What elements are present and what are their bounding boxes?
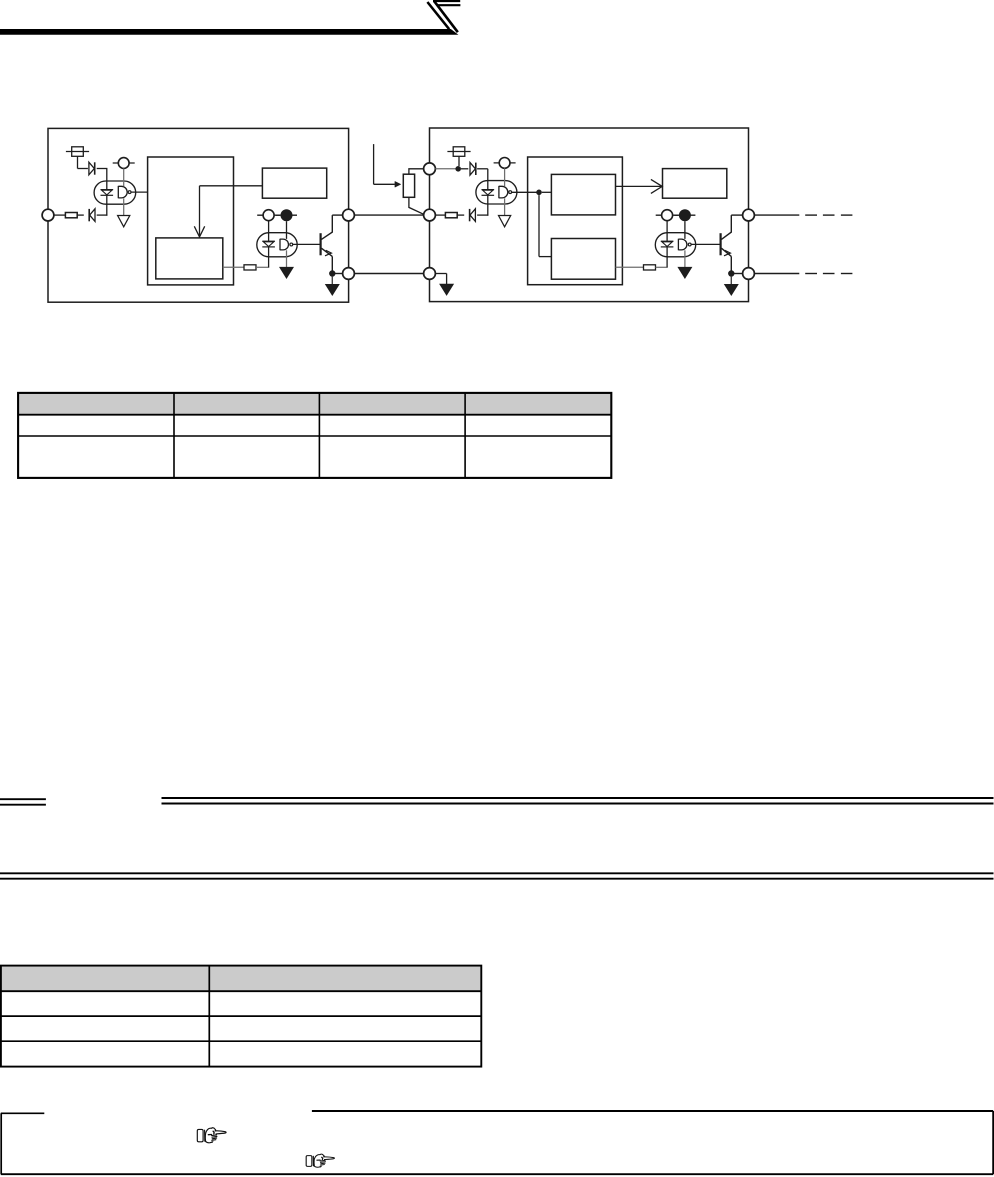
chapter rule full width <box>0 873 994 878</box>
resistor R1 input left <box>65 213 77 218</box>
arrow logic to function rect <box>616 179 663 193</box>
wire fuse to junction <box>458 156 460 166</box>
filled rail circle right output <box>674 209 695 221</box>
PC1 LED <box>101 190 114 196</box>
wire D3 to LED anode <box>477 169 488 190</box>
ground PC4 right <box>678 267 691 278</box>
table 1 specifications <box>18 393 611 478</box>
wire junction to ground Q2 <box>730 276 732 284</box>
wire Q1 emitter to junction <box>331 256 333 273</box>
series resistor R3 vertical <box>403 174 414 197</box>
wire terminal to ground right <box>435 274 446 285</box>
function rect left-top <box>262 168 326 198</box>
wire link lower <box>354 273 423 275</box>
fuse F2 right <box>447 147 470 157</box>
right unit outer box <box>430 128 749 302</box>
ground Q2 emitter <box>725 285 738 296</box>
PC2 detector <box>280 239 293 251</box>
wire Q1 collector to terminal <box>332 214 342 216</box>
transistor Q2 <box>721 215 732 256</box>
section rule short left <box>0 799 46 805</box>
wire terminal to resistor <box>54 214 66 216</box>
wire lower rect to resistor R5 <box>616 266 644 268</box>
PC4 LED <box>661 241 674 247</box>
terminal X input left <box>42 209 54 221</box>
output terminal left upper <box>343 209 355 221</box>
wire PC4 output to Q2 base <box>691 243 720 245</box>
logic ground right input <box>499 216 511 227</box>
wire PC3 detector to logic ground <box>504 198 506 215</box>
diode D3 right-block upper <box>470 163 476 176</box>
logic ground left input <box>118 216 130 227</box>
open rail circle right output <box>656 210 679 221</box>
junction dot Q2 emitter <box>728 270 734 276</box>
wire R3 top to terminal <box>409 169 424 174</box>
resistor R4 right input <box>445 213 457 218</box>
wire supply to PC1 detector <box>123 168 125 186</box>
open rail circle left output <box>257 210 280 221</box>
ground Q1 emitter <box>326 285 339 296</box>
wire terminal to junction <box>435 168 458 170</box>
wire filled rail to PC4 detector <box>684 221 686 239</box>
resistor R5 right output <box>644 265 656 270</box>
diode D1 left-block upper <box>89 162 95 175</box>
wire R3 bottom to terminal <box>409 197 424 214</box>
wire open rail to PC2 LED anode <box>268 221 270 242</box>
wire output tail lower <box>754 273 852 275</box>
diode D2 left-block lower <box>89 209 95 222</box>
wire PC1 output to logic box <box>131 191 147 193</box>
function rect right-top <box>663 169 727 199</box>
wire link upper <box>354 214 423 216</box>
wire junction to output terminal <box>335 273 343 275</box>
header zigzag double diagonal <box>427 1 457 32</box>
output terminal right upper <box>743 209 755 221</box>
transistor Q1 <box>321 215 333 256</box>
power symbol left input <box>113 158 135 169</box>
resistor R2 left output <box>244 265 256 270</box>
wire junction to ground <box>331 276 333 284</box>
diode D4 right-block lower <box>470 209 476 222</box>
wire R4 to diode D4 <box>457 214 464 216</box>
wire junction to diode D3 <box>461 168 468 170</box>
input terminal right middle <box>424 209 436 221</box>
input terminal right lower <box>424 268 436 280</box>
logic rect right upper <box>551 174 615 215</box>
PC2 LED <box>262 241 275 247</box>
inner logic box right <box>528 157 623 285</box>
wire terminal to resistor R4 <box>435 214 445 216</box>
output terminal right lower <box>743 268 755 280</box>
wire junction to lower rect <box>539 195 551 257</box>
wire filled rail to PC2 detector <box>286 221 288 239</box>
wire control block to resistor R2 <box>223 266 244 268</box>
callout line <box>374 144 401 187</box>
wire PC4 detector to ground <box>684 250 686 267</box>
ground right input common <box>440 284 453 295</box>
power symbol right input <box>494 158 516 169</box>
ground PC2 left <box>280 267 293 278</box>
control block rect left <box>156 238 223 279</box>
junction dot PC3 output <box>536 190 542 196</box>
table 2 terminal list <box>1 966 481 1067</box>
PC3 detector <box>499 186 512 198</box>
section rule long <box>162 798 994 804</box>
wire R2 to PC2 LED <box>256 247 269 267</box>
left unit outer box <box>48 128 349 302</box>
wire junction to upper rect <box>542 191 552 193</box>
photocoupler PC3 body <box>476 181 517 204</box>
wire R5 to PC4 LED <box>656 247 668 267</box>
PC4 detector <box>678 239 691 251</box>
photocoupler PC2 body <box>257 233 297 257</box>
junction dot right input <box>455 166 461 172</box>
wire junction to output terminal right <box>734 273 743 275</box>
header zigzag top bars <box>433 1 460 5</box>
photocoupler PC4 body <box>655 233 695 257</box>
note box frame <box>1 1111 993 1174</box>
pointing hand reference 2 <box>306 1154 334 1167</box>
wire resistor to diode D2 <box>77 214 84 216</box>
arrow into control block left <box>194 186 262 237</box>
wire Q2 collector to terminal <box>731 214 742 216</box>
PC3 LED <box>482 190 495 196</box>
inner logic box left <box>148 157 234 285</box>
wire Q2 emitter to junction <box>730 256 732 273</box>
junction dot Q1 emitter <box>329 270 335 276</box>
wire output tail upper <box>754 214 852 216</box>
pointing hand reference 1 <box>197 1128 226 1143</box>
fuse F1 left <box>66 147 89 157</box>
wire PC2 output to Q1 base <box>293 243 320 245</box>
input terminal right upper <box>424 163 436 175</box>
wire D2 to LED cathode <box>97 195 108 215</box>
wire PC1 detector to logic ground <box>123 198 125 215</box>
wire D4 to LED cathode <box>477 195 488 215</box>
wire fuse to diode D1 <box>78 156 88 168</box>
header rule thick bar <box>0 29 458 35</box>
wire open rail to PC4 LED anode <box>666 221 668 242</box>
logic rect right lower <box>551 239 615 280</box>
output terminal left lower <box>343 268 355 280</box>
photocoupler PC1 body <box>94 181 136 204</box>
filled rail circle left output <box>276 209 297 221</box>
wire PC3 output to junction <box>512 191 539 193</box>
wire supply to PC3 detector <box>504 168 506 186</box>
wire D1 to LED anode <box>97 169 108 190</box>
wire PC2 detector to ground <box>286 250 288 267</box>
PC1 detector <box>118 186 131 198</box>
